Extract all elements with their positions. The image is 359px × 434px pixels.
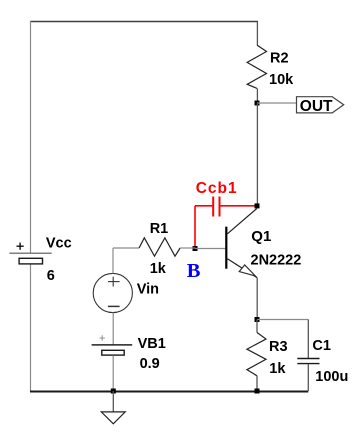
svg-text:R3: R3	[269, 339, 288, 355]
node junction capacitor/collector	[255, 203, 260, 208]
svg-text:0.9: 0.9	[140, 356, 160, 372]
capacitor Ccb1	[195, 197, 255, 247]
svg-text:Q1: Q1	[251, 228, 271, 245]
svg-text:Vcc: Vcc	[46, 236, 72, 252]
node junction ground	[111, 389, 116, 394]
svg-text:Vin: Vin	[137, 281, 159, 297]
svg-text:100u: 100u	[315, 369, 348, 385]
wire left rail Vcc branch upper	[30, 21, 32, 253]
node junction B	[193, 246, 198, 251]
source Vin	[93, 273, 132, 312]
battery VB1	[92, 335, 133, 355]
wire VB1 to ground rail	[112, 355, 114, 391]
node OUT flag	[297, 97, 344, 115]
svg-text:Ccb1: Ccb1	[196, 180, 238, 197]
wire to C1 branch	[257, 319, 308, 321]
wire base	[195, 248, 225, 250]
wire collector feed	[256, 103, 258, 206]
node junction emitter/R3/C1	[255, 317, 260, 322]
wire Vin top to R1	[112, 248, 114, 273]
svg-text:1k: 1k	[269, 361, 286, 377]
ground	[101, 391, 125, 424]
battery Vcc	[9, 243, 51, 264]
svg-text:10k: 10k	[269, 72, 294, 88]
svg-text:6: 6	[47, 268, 55, 284]
resistor R1	[113, 238, 195, 256]
resistor R3	[247, 320, 266, 392]
wire bottom ground rail	[30, 391, 308, 393]
svg-text:B: B	[187, 260, 201, 282]
svg-text:1k: 1k	[150, 261, 167, 277]
wire emitter down	[256, 278, 258, 320]
svg-text:R1: R1	[150, 221, 169, 237]
svg-text:2N2222: 2N2222	[251, 252, 302, 268]
wire left rail Vcc branch lower	[30, 264, 32, 391]
capacitor C1	[297, 320, 319, 392]
transistor Q1	[226, 209, 257, 278]
svg-text:C1: C1	[312, 338, 331, 354]
wire Vin bottom to VB1	[112, 313, 114, 345]
wire to OUT flag	[257, 102, 297, 104]
node junction R3/ground rail	[255, 389, 260, 394]
node junction R2/OUT	[255, 101, 260, 106]
svg-text:OUT: OUT	[300, 98, 333, 115]
resistor R2	[247, 22, 266, 104]
svg-text:R2: R2	[270, 51, 289, 67]
wire top rail from Vcc to R2	[31, 21, 259, 23]
svg-text:VB1: VB1	[138, 336, 166, 352]
